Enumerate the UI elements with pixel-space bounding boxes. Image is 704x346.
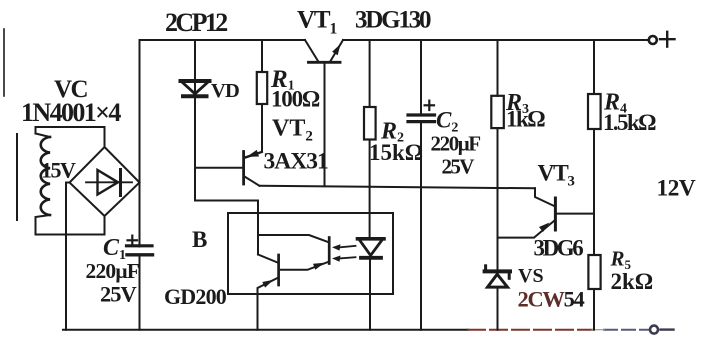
svg-text:2CW54: 2CW54 [518, 287, 585, 312]
svg-text:VT3: VT3 [538, 161, 575, 190]
svg-text:2kΩ: 2kΩ [611, 269, 654, 294]
svg-text:25V: 25V [100, 282, 137, 307]
svg-text:VT2: VT2 [272, 116, 313, 145]
svg-text:3DG130: 3DG130 [355, 7, 431, 34]
svg-text:1N4001×4: 1N4001×4 [21, 98, 121, 127]
svg-text:12V: 12V [657, 176, 696, 202]
svg-text:B: B [192, 227, 207, 252]
svg-text:15V: 15V [41, 158, 76, 183]
svg-text:VD: VD [211, 80, 239, 102]
svg-text:VS: VS [518, 265, 544, 287]
svg-text:1kΩ: 1kΩ [506, 107, 545, 132]
svg-text:220μF: 220μF [86, 259, 140, 283]
svg-text:100Ω: 100Ω [271, 87, 320, 112]
svg-text:2CP12: 2CP12 [165, 8, 227, 37]
svg-text:3AX31: 3AX31 [264, 149, 328, 175]
svg-text:VT1: VT1 [297, 7, 337, 38]
svg-text:GD200: GD200 [164, 284, 227, 309]
svg-text:15kΩ: 15kΩ [369, 140, 423, 165]
svg-text:3DG6: 3DG6 [534, 236, 584, 261]
svg-text:220μF: 220μF [431, 132, 481, 156]
svg-text:25V: 25V [442, 155, 475, 179]
svg-text:1.5kΩ: 1.5kΩ [603, 110, 656, 135]
